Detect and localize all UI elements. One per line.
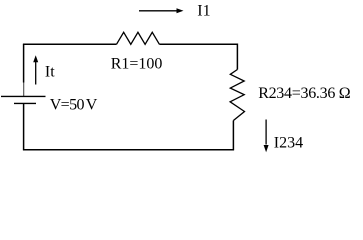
svg-text:It: It — [45, 64, 55, 81]
current arrow It (left, pointing up) — [33, 55, 38, 84]
svg-text:R1=100: R1=100 — [111, 56, 163, 73]
current arrow I1 (top, pointing right) — [139, 8, 184, 13]
svg-text:I234: I234 — [274, 135, 303, 152]
wire: left vertical from top-left corner down — [23, 44, 25, 82]
wire: thin gray stem into battery top plate — [23, 83, 25, 97]
svg-text:I1: I1 — [197, 2, 210, 19]
wire: bottom horizontal — [23, 149, 234, 151]
wire: top horizontal from R1 to top-right corner, down to R234 — [159, 44, 237, 69]
resistor R1 (zigzag) — [117, 32, 160, 44]
wire: right vertical from R234 down to bottom-right corner — [232, 121, 234, 150]
svg-text:R234=36.36 Ω: R234=36.36 Ω — [258, 85, 351, 102]
resistor R234 (vertical zigzag) — [230, 70, 244, 121]
svg-text:V=50V: V=50V — [50, 97, 98, 114]
current arrow I234 (bottom-right, pointing down) — [264, 120, 269, 153]
wire: top horizontal from top-left corner to R1 — [23, 43, 117, 45]
battery V1 bottom plate (short) — [14, 102, 36, 104]
wire: left vertical from bottom-left corner up to battery bottom plate — [23, 103, 25, 149]
battery V1 top plate (long) — [1, 95, 46, 97]
